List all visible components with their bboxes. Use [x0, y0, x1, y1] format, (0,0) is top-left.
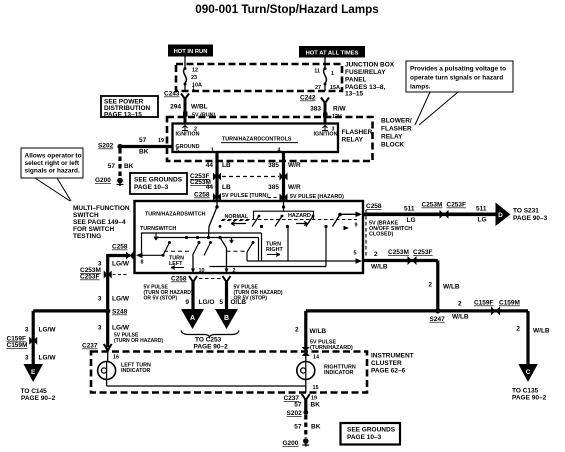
svg-text:S202: S202 — [98, 143, 114, 150]
pin 2 wire inside switch — [225, 248, 236, 274]
turn right label — [266, 242, 283, 257]
svg-text:16: 16 — [113, 355, 119, 361]
svg-text:PAGE 10–3: PAGE 10–3 — [134, 184, 169, 191]
svg-text:FUSE/RELAY: FUSE/RELAY — [345, 69, 386, 76]
svg-text:LG/W: LG/W — [39, 327, 57, 334]
svg-text:W/LB: W/LB — [452, 314, 469, 321]
flasher relay label — [342, 129, 373, 144]
svg-text:LG/W: LG/W — [112, 261, 130, 268]
turn left label — [169, 256, 184, 270]
svg-text:W/LB: W/LB — [443, 284, 460, 291]
connector C159F/C159M on right — [474, 300, 520, 316]
svg-text:BK: BK — [124, 163, 134, 170]
svg-text:57: 57 — [294, 424, 302, 431]
wire 511 LG (right of connector) — [476, 206, 487, 224]
wire from HOT IN RUN to fuse 23 — [184, 57, 186, 68]
svg-text:BK: BK — [311, 402, 321, 409]
HOT IN RUN label box — [168, 45, 213, 57]
svg-text:9: 9 — [355, 223, 358, 229]
svg-text:D: D — [498, 212, 503, 219]
svg-text:HAZARD: HAZARD — [288, 213, 311, 219]
svg-text:G200: G200 — [95, 177, 111, 184]
svg-text:1: 1 — [331, 71, 334, 77]
svg-text:CLOSED): CLOSED) — [369, 232, 393, 238]
svg-text:C258: C258 — [366, 203, 382, 210]
svg-text:9: 9 — [185, 299, 189, 306]
splice S247 — [430, 308, 446, 323]
to C253 label — [194, 337, 229, 351]
svg-text:PAGE 10–3: PAGE 10–3 — [347, 434, 382, 441]
off-page triangle D — [496, 203, 548, 227]
svg-text:C253F: C253F — [413, 249, 433, 256]
instrument cluster label — [371, 353, 414, 375]
fuse 1 (15A), pins 11/27 — [314, 67, 340, 91]
svg-text:LG/O: LG/O — [199, 299, 215, 306]
pin 4 stub into switch — [254, 201, 314, 219]
svg-text:C253F: C253F — [80, 274, 100, 281]
svg-text:W/BL: W/BL — [191, 104, 208, 111]
svg-text:27: 27 — [315, 85, 321, 91]
svg-text:LB: LB — [222, 184, 231, 191]
svg-text:S202: S202 — [287, 410, 303, 417]
svg-text:operate turn signals or ha: operate turn signals or hazard — [410, 75, 503, 82]
connector C258 labels and 5V pulse notes — [194, 192, 344, 201]
C258 connector symbols on the two wires — [213, 193, 221, 201]
svg-text:TO C253: TO C253 — [195, 337, 222, 344]
svg-text:LG/W: LG/W — [112, 296, 130, 303]
wire relay pin4 to switch pin4: 385 W/R — [268, 148, 301, 202]
wire S202 to G200 (dashed) — [108, 149, 134, 178]
cluster internal wire — [107, 385, 306, 387]
svg-text:C237: C237 — [82, 343, 98, 350]
multi-function switch note — [73, 205, 130, 240]
svg-text:3: 3 — [98, 325, 102, 332]
svg-text:(TURN/HAZARD): (TURN/HAZARD) — [310, 345, 353, 351]
svg-text:19: 19 — [158, 138, 164, 144]
svg-text:IGNITION: IGNITION — [176, 131, 200, 137]
svg-text:3: 3 — [98, 296, 102, 303]
svg-text:BLOWER/: BLOWER/ — [381, 118, 412, 125]
hazard switch blades — [219, 215, 340, 229]
svg-text:BK: BK — [311, 424, 321, 431]
wire from HOT AT ALL TIMES to fuse 1 — [324, 58, 326, 68]
pin 9 exit wire (right) — [338, 212, 362, 231]
svg-text:C258: C258 — [171, 276, 187, 283]
5V (RUN) note — [183, 112, 216, 119]
svg-text:090-001 Turn/Stop/Hazard Lamps: 090-001 Turn/Stop/Hazard Lamps — [195, 3, 379, 16]
svg-text:C253M: C253M — [388, 249, 409, 256]
svg-text:57: 57 — [294, 402, 302, 409]
svg-text:LG/W: LG/W — [39, 355, 57, 362]
turn switch blades lower — [162, 238, 255, 257]
svg-text:W/R: W/R — [288, 162, 301, 169]
svg-text:C159M: C159M — [499, 300, 520, 307]
svg-text:1: 1 — [211, 148, 214, 154]
svg-text:SEE GROUNDS: SEE GROUNDS — [134, 177, 183, 184]
svg-text:5V PULSE (TURN): 5V PULSE (TURN) — [222, 193, 268, 199]
svg-text:INSTRUMENT: INSTRUMENT — [371, 353, 414, 360]
svg-text:2: 2 — [374, 251, 378, 258]
svg-text:LG: LG — [407, 217, 416, 224]
svg-text:OR 5V (STOP): OR 5V (STOP) — [234, 296, 268, 302]
svg-text:383: 383 — [310, 106, 321, 113]
svg-text:HOT IN RUN: HOT IN RUN — [174, 49, 208, 55]
wire 2 W/LB down — [428, 282, 460, 291]
svg-text:TO S231: TO S231 — [513, 208, 539, 215]
svg-text:PAGE 90–2: PAGE 90–2 — [21, 395, 56, 402]
svg-text:lamps.: lamps. — [410, 84, 431, 91]
left turn indicator bulb — [98, 362, 151, 380]
svg-text:TESTING: TESTING — [73, 233, 101, 240]
svg-text:4: 4 — [278, 148, 281, 154]
svg-text:13–15: 13–15 — [345, 91, 363, 98]
svg-text:57: 57 — [108, 163, 116, 170]
relay ignition coil pin 3 — [314, 125, 338, 137]
svg-text:5: 5 — [219, 299, 223, 306]
connector C258 (left) — [108, 244, 134, 260]
svg-text:Allows operator to: Allows operator to — [25, 153, 82, 160]
svg-text:2: 2 — [516, 326, 520, 333]
svg-text:TO C135: TO C135 — [512, 388, 539, 395]
svg-text:RIGHT: RIGHT — [266, 247, 283, 253]
connector C253M/C253F on 2 W/LB — [388, 249, 433, 265]
svg-text:PAGE 62–6: PAGE 62–6 — [371, 368, 406, 375]
ground G200 left — [95, 177, 124, 186]
svg-text:8: 8 — [141, 260, 144, 266]
svg-text:LEFT: LEFT — [169, 261, 183, 267]
svg-text:SEE PAGE 149–4: SEE PAGE 149–4 — [73, 219, 126, 226]
splice S248 — [105, 308, 127, 315]
connector pair symbol on 385 W/R wire — [280, 173, 288, 181]
branch wire to E — [25, 311, 108, 364]
svg-text:R/W: R/W — [333, 106, 347, 113]
blower/flasher relay block (dashed box) — [167, 117, 373, 161]
svg-text:W/LB: W/LB — [371, 264, 388, 271]
svg-text:LB: LB — [222, 162, 231, 169]
wire 5 O/LB — [219, 280, 246, 310]
svg-text:TURN/HAZARDSWITCH: TURN/HAZARDSWITCH — [145, 212, 206, 218]
junction box label — [345, 62, 395, 98]
svg-text:3: 3 — [25, 355, 29, 362]
svg-text:C159F: C159F — [474, 300, 494, 307]
svg-text:5V PULSE (HAZARD): 5V PULSE (HAZARD) — [290, 194, 344, 200]
svg-text:294: 294 — [170, 104, 181, 111]
svg-text:3: 3 — [25, 327, 29, 334]
note 5V pulse right — [234, 285, 283, 302]
relay ground pin 5 — [176, 144, 200, 154]
svg-text:GROUND: GROUND — [176, 144, 200, 150]
svg-text:G200: G200 — [283, 440, 299, 447]
svg-text:(TURN OR HAZARD): (TURN OR HAZARD) — [114, 338, 163, 344]
svg-text:OR 5V (STOP): OR 5V (STOP) — [144, 296, 178, 302]
connector pair symbol on 44 LB wire — [213, 173, 221, 181]
svg-text:W/R: W/R — [288, 184, 301, 191]
svg-text:C253M: C253M — [190, 179, 211, 186]
svg-text:FLASHER: FLASHER — [381, 126, 412, 133]
svg-text:E: E — [31, 369, 36, 376]
svg-text:PANEL: PANEL — [345, 77, 367, 84]
wire 3 LG/W to E — [25, 355, 56, 362]
wire 3 LG/W — [98, 296, 130, 303]
wire S247 left to right indicator — [295, 311, 438, 351]
svg-text:select right or left: select right or left — [25, 160, 80, 167]
pin 1 stub into switch — [209, 201, 219, 238]
svg-text:W/LB: W/LB — [310, 328, 327, 335]
svg-text:JUNCTION BOX: JUNCTION BOX — [345, 62, 395, 69]
right turn indicator bulb — [297, 352, 356, 393]
svg-text:511: 511 — [476, 206, 487, 213]
svg-text:C258: C258 — [194, 192, 210, 199]
relay turn/hazard controls — [221, 137, 298, 143]
svg-text:C: C — [526, 369, 531, 376]
svg-text:15: 15 — [313, 385, 319, 391]
multi-function switch box — [135, 201, 364, 273]
wire 9 LG/O — [185, 280, 214, 310]
HOT AT ALL TIMES label box — [299, 46, 365, 58]
svg-text:385: 385 — [268, 184, 279, 191]
svg-text:SEE GROUNDS: SEE GROUNDS — [347, 427, 396, 434]
svg-text:C242: C242 — [300, 95, 316, 102]
svg-text:PAGE 90–2: PAGE 90–2 — [512, 395, 547, 402]
svg-text:RELAY: RELAY — [342, 137, 364, 144]
svg-text:PAGE 90–2: PAGE 90–2 — [194, 344, 229, 351]
svg-text:14: 14 — [313, 355, 319, 361]
svg-text:10: 10 — [199, 268, 205, 274]
SEE POWER DISTRIBUTION note box — [101, 96, 158, 119]
svg-text:2: 2 — [233, 268, 236, 274]
svg-text:S248: S248 — [112, 309, 128, 316]
svg-text:TURNSWITCH: TURNSWITCH — [140, 226, 176, 232]
dashed connector plane between C253 connectors — [222, 176, 279, 178]
main wire down to cluster — [98, 311, 164, 347]
wire relay pin1 to switch pin1: 44 LB — [206, 148, 231, 202]
callout: provides pulsating voltage — [406, 61, 513, 125]
connector C237 (left) — [82, 343, 119, 363]
svg-text:LG/W: LG/W — [112, 325, 130, 332]
svg-text:11: 11 — [314, 69, 320, 75]
wire 383 R/W — [310, 101, 346, 124]
turn switch common line — [154, 236, 259, 261]
inner vertical links — [210, 227, 327, 267]
mechanical linkage dashes — [164, 250, 192, 252]
svg-text:5: 5 — [176, 148, 179, 154]
off-page triangle B — [215, 309, 238, 329]
connector C253M/C253F (left) — [80, 267, 128, 281]
connector C242 — [300, 95, 329, 104]
svg-text:S247: S247 — [430, 316, 446, 323]
12V note — [323, 113, 342, 121]
relay ignition coil pin 2 — [176, 125, 200, 137]
pin 10 wire inside switch — [191, 256, 205, 275]
wire 511 LG — [363, 206, 496, 224]
hazard common dashed line — [222, 219, 357, 221]
connector C253M/C253F on 511 — [422, 202, 467, 219]
svg-text:MULTI–FUNCTION: MULTI–FUNCTION — [73, 205, 130, 212]
svg-text:TURN/HAZARDCONTROLS: TURN/HAZARDCONTROLS — [222, 137, 292, 143]
svg-text:Provides a pulsating voltag: Provides a pulsating voltage to — [410, 66, 506, 73]
note 5V pulse left — [144, 285, 193, 302]
connector C258 (middle) — [171, 276, 231, 283]
connector C243 — [164, 91, 189, 100]
svg-text:44: 44 — [206, 162, 214, 169]
svg-text:INDICATOR: INDICATOR — [121, 368, 151, 374]
svg-text:1: 1 — [192, 86, 195, 92]
flasher relay (solid box) — [173, 124, 339, 153]
svg-text:12: 12 — [192, 68, 198, 74]
wire 3 LG/W down — [98, 254, 130, 311]
svg-text:RELAY: RELAY — [381, 134, 403, 141]
wire S247 right: 2 W/LB — [438, 301, 528, 365]
hazard position — [288, 213, 311, 226]
turn switch feed line — [141, 233, 262, 261]
wire below left bulb — [106, 380, 108, 387]
connector into cluster (right wire) — [302, 347, 310, 356]
svg-text:LG: LG — [478, 217, 487, 224]
svg-text:SWITCH: SWITCH — [73, 212, 99, 219]
svg-text:W/LB: W/LB — [533, 328, 550, 335]
SEE GROUNDS note box left — [130, 173, 187, 194]
svg-text:57: 57 — [139, 137, 147, 144]
off-page triangle E — [21, 364, 56, 402]
junction box fuse/relay panel (dashed box) — [176, 64, 342, 91]
wire S202 to G200 dashed — [294, 415, 320, 438]
svg-text:C258: C258 — [112, 244, 128, 251]
normal position — [221, 214, 249, 226]
pin 8 exit wire (left) — [136, 253, 163, 266]
wire 57 BK — [294, 398, 320, 412]
off-page triangle C — [512, 364, 547, 402]
connector C237 (right) — [284, 394, 318, 402]
brace under A and B — [181, 331, 239, 338]
blade from pin 1 — [209, 207, 217, 227]
splice S202 right — [287, 410, 309, 417]
wire 294 W/BL — [170, 97, 207, 124]
wire down to C — [516, 326, 550, 335]
splice S202 left — [98, 143, 123, 150]
hazard feed bracket — [254, 211, 314, 219]
svg-text:A: A — [190, 315, 195, 322]
svg-text:2: 2 — [428, 282, 432, 289]
svg-text:BLOCK: BLOCK — [381, 142, 404, 149]
svg-text:PAGE 13–15: PAGE 13–15 — [104, 112, 142, 119]
svg-text:HOT AT ALL TIMES: HOT AT ALL TIMES — [306, 51, 359, 57]
svg-text:PAGE 90–3: PAGE 90–3 — [513, 215, 548, 222]
svg-text:FLASHER: FLASHER — [342, 129, 373, 136]
connector C258 (right, dashed plane) — [366, 203, 382, 258]
svg-text:23: 23 — [191, 75, 197, 81]
svg-text:C243: C243 — [164, 91, 180, 98]
svg-text:2: 2 — [458, 301, 462, 308]
svg-text:signals or hazard.: signals or hazard. — [25, 168, 80, 175]
blower/flasher relay block label — [381, 118, 412, 149]
svg-text:IGNITION: IGNITION — [314, 131, 338, 137]
SEE GROUNDS note box right — [341, 423, 401, 445]
svg-text:511: 511 — [404, 206, 415, 213]
svg-text:15A: 15A — [330, 85, 340, 91]
svg-text:C253M: C253M — [422, 202, 443, 209]
svg-text:C253F: C253F — [447, 202, 467, 209]
fuse 23 (10A), pins 12/1 — [184, 67, 202, 92]
connector C159F/C159M (left) — [7, 336, 38, 350]
callout: allows operator — [21, 148, 83, 201]
pin 5 exit wire (right bottom) — [247, 251, 362, 264]
svg-text:B: B — [224, 315, 229, 322]
svg-text:CLUSTER: CLUSTER — [371, 360, 402, 367]
svg-text:BK: BK — [139, 149, 149, 156]
wire 57 BK to relay ground — [120, 137, 173, 156]
off-page triangle A — [181, 309, 204, 329]
svg-text:2: 2 — [295, 327, 299, 334]
note 5V brake — [369, 221, 412, 238]
svg-text:385: 385 — [268, 162, 279, 169]
ground G200 right — [283, 438, 310, 447]
svg-text:5: 5 — [354, 251, 357, 257]
connector C253F/C253M labels — [190, 173, 211, 186]
svg-text:C159M: C159M — [7, 342, 28, 349]
svg-text:FOR SWITCH: FOR SWITCH — [73, 226, 114, 233]
svg-text:INDICATOR: INDICATOR — [324, 370, 354, 376]
